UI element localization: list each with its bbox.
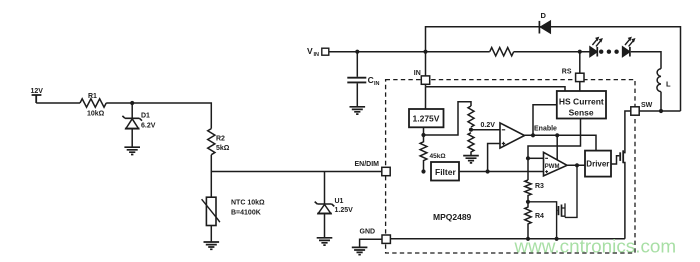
svg-text:MPQ2489: MPQ2489 xyxy=(433,212,472,222)
resistor R3 xyxy=(525,180,544,202)
svg-text:1.275V: 1.275V xyxy=(413,114,440,124)
node junction dot 0.2V xyxy=(469,128,473,132)
resistor R4 xyxy=(525,202,544,239)
node junction dot dim FET ground xyxy=(555,237,559,241)
resistor 45kΩ xyxy=(420,135,445,172)
wire HS sense output to R3 top xyxy=(528,119,581,181)
svg-text:Filter: Filter xyxy=(435,167,456,177)
wire PWM output to Driver xyxy=(567,164,585,166)
node junction dot comparator plus branch xyxy=(486,169,490,173)
wire enable to PWM comparator top xyxy=(556,135,558,160)
resistor divider upper xyxy=(468,106,474,127)
svg-text:U1: U1 xyxy=(335,198,344,205)
wire riser to top rail xyxy=(426,27,681,111)
wire RS pin drop xyxy=(579,52,581,73)
wire filter output to PWM plus xyxy=(459,171,544,173)
block Filter xyxy=(431,162,459,181)
svg-text:IN: IN xyxy=(374,81,380,87)
pin EN/DIM xyxy=(355,161,391,176)
svg-text:45kΩ: 45kΩ xyxy=(430,153,446,160)
svg-text:1.25V: 1.25V xyxy=(335,207,354,214)
svg-text:L: L xyxy=(666,79,671,88)
node junction dot R4 ground xyxy=(526,237,530,241)
resistor RS sense xyxy=(490,48,514,56)
svg-text:Enable: Enable xyxy=(534,126,557,133)
pin IN xyxy=(414,70,430,84)
pin SW xyxy=(631,102,653,115)
diode D freewheeling xyxy=(539,11,550,33)
diode D1 zener 6.2V xyxy=(122,103,155,147)
wire VIN rail xyxy=(329,51,490,53)
svg-text:IN: IN xyxy=(414,70,421,77)
svg-text:R2: R2 xyxy=(216,136,225,143)
node junction dot below 1.275V xyxy=(421,133,425,137)
svg-text:GND: GND xyxy=(360,229,376,236)
svg-text:R3: R3 xyxy=(535,183,544,190)
resistor R2 5kΩ xyxy=(208,129,230,155)
IC MPQ2489 dashed box xyxy=(386,80,635,253)
svg-text:HS Current: HS Current xyxy=(559,97,604,107)
svg-text:D: D xyxy=(541,11,547,20)
svg-text:0.2V: 0.2V xyxy=(481,122,496,129)
resistor R1 10kΩ xyxy=(80,93,106,118)
pin GND xyxy=(360,229,391,244)
wire R2 to NTC xyxy=(210,155,212,197)
node junction dot RS tap xyxy=(578,50,582,54)
wire 1.275V to divider xyxy=(424,102,472,135)
svg-text:SW: SW xyxy=(641,102,653,109)
capacitor CIN xyxy=(347,52,379,107)
wire LED2 to inductor xyxy=(631,52,661,69)
ground below NTC xyxy=(204,242,220,249)
svg-text:C: C xyxy=(368,75,374,85)
wire internal IN rail to HS sense xyxy=(426,84,566,91)
wire 0.2V to comparator minus xyxy=(471,122,500,130)
wire EN/DIM line from R2 junction to pin xyxy=(211,171,382,173)
wire enable to HS sense block xyxy=(533,105,557,136)
wire Enable line xyxy=(525,126,597,151)
wire GND rail xyxy=(390,238,625,240)
svg-text:10kΩ: 10kΩ xyxy=(87,110,105,117)
wire R1 to R2 corner xyxy=(106,103,211,129)
pin RS xyxy=(562,68,584,81)
svg-text:www.cntronics.com: www.cntronics.com xyxy=(514,237,677,258)
block HS Current Sense xyxy=(557,91,606,119)
wire SW node row xyxy=(639,110,680,112)
wire IN pin drop xyxy=(425,52,427,76)
diode U1 zener 1.25V xyxy=(315,172,353,238)
svg-text:EN/DIM: EN/DIM xyxy=(355,161,380,168)
node junction dot enable PWM branch xyxy=(555,133,559,137)
block 1.275V reference xyxy=(409,109,444,127)
svg-text:R4: R4 xyxy=(535,213,544,220)
LED LED1 xyxy=(590,37,603,57)
node junction dot PWM minus branch xyxy=(526,156,530,160)
node junction dot PWM output xyxy=(575,163,579,167)
node junction dot R3 R4 gate xyxy=(526,200,530,204)
svg-text:B=4100K: B=4100K xyxy=(231,209,261,216)
wire 12V to R1 xyxy=(36,102,80,104)
svg-text:V: V xyxy=(307,46,313,56)
node junction dot D1 tap xyxy=(130,101,134,105)
ground at GND pin xyxy=(352,247,368,254)
wire PWM minus input xyxy=(528,157,544,159)
resistor divider lower xyxy=(468,133,474,156)
ground below D1 xyxy=(124,147,140,154)
svg-text:Driver: Driver xyxy=(586,160,609,169)
svg-text:NTC 10kΩ: NTC 10kΩ xyxy=(231,200,265,207)
wire RS pin into HS sense xyxy=(579,82,581,91)
node LED string dots xyxy=(599,50,619,54)
wire inductor to SW node xyxy=(660,92,662,111)
wire comparator plus input xyxy=(488,144,500,172)
op-amp PWM comparator xyxy=(544,152,568,176)
svg-text:RS: RS xyxy=(562,68,572,75)
node junction dot SW xyxy=(659,109,663,113)
node junction dot filter input xyxy=(421,169,425,173)
svg-text:Sense: Sense xyxy=(569,108,594,118)
node junction dot enable up branch xyxy=(531,133,535,137)
svg-text:12V: 12V xyxy=(31,88,44,95)
svg-text:PWM: PWM xyxy=(545,164,560,170)
transistor Q2 dimming FET xyxy=(528,165,577,239)
block Driver xyxy=(585,151,611,177)
node junction dot CIN tap xyxy=(355,50,359,54)
inductor L xyxy=(657,69,671,92)
wire NTC to ground xyxy=(210,226,212,242)
svg-text:5kΩ: 5kΩ xyxy=(216,145,230,152)
svg-text:R1: R1 xyxy=(88,93,97,100)
thermistor NTC 10kΩ B=4100K xyxy=(202,197,265,225)
transistor Q1 output FET xyxy=(620,150,625,239)
node junction dot IN riser tap xyxy=(423,50,427,54)
ground below CIN xyxy=(350,107,366,114)
node VIN terminal xyxy=(307,46,329,58)
svg-text:D1: D1 xyxy=(141,113,150,120)
ground below U1 xyxy=(317,238,333,245)
svg-text:IN: IN xyxy=(314,52,320,58)
ground below divider xyxy=(463,156,479,163)
LED LED2 xyxy=(623,37,636,57)
wire Driver gate lead xyxy=(611,156,619,164)
wire IN to 1.275V box xyxy=(425,87,427,109)
node 12V terminal xyxy=(31,88,44,103)
op-amp EN comparator xyxy=(500,123,525,148)
svg-text:6.2V: 6.2V xyxy=(141,123,156,130)
wire sense resistor to LED string xyxy=(514,51,590,53)
wire GND pin to external ground xyxy=(360,239,382,247)
wire SW pin to output FET drain xyxy=(623,111,631,153)
